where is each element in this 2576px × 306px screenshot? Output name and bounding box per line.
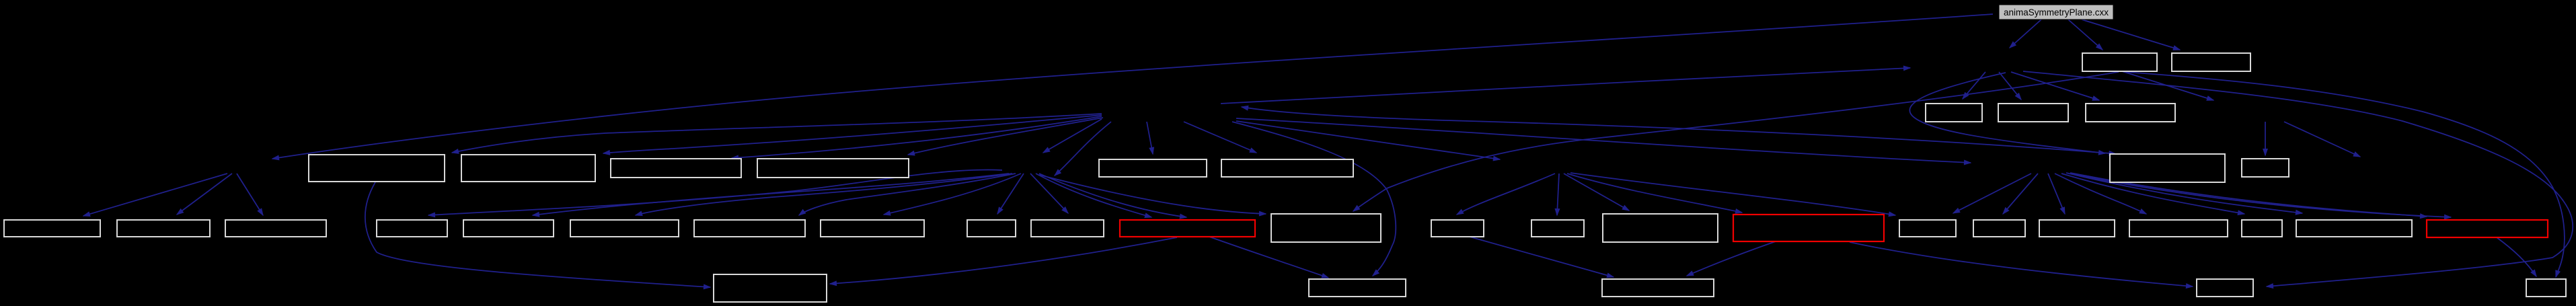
svg-text:animaSymmetryPlane.cxx: animaSymmetryPlane.cxx bbox=[2004, 7, 2109, 17]
